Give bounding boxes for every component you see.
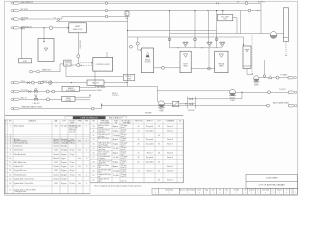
pump P1 feed pump	[159, 101, 165, 107]
svg-text:Sheet 2: Sheet 2	[147, 152, 153, 155]
svg-text:45 gpm: 45 gpm	[61, 154, 67, 156]
svg-text:50: 50	[138, 139, 140, 141]
svg-text:2: 2	[86, 126, 87, 128]
svg-text:15: 15	[138, 153, 140, 155]
svg-text:AND DATA LIST: AND DATA LIST	[109, 117, 124, 120]
svg-text:ACT RO 4 Dia: ACT RO 4 Dia	[98, 137, 109, 140]
svg-text:35: 35	[158, 126, 160, 128]
wire line1 drop	[260, 3, 262, 33]
svg-text:Recycled: Recycled	[146, 157, 153, 159]
svg-text:Chem Feed: Chem Feed	[14, 150, 23, 152]
off-page input connector	[11, 98, 20, 100]
left table row data	[9, 125, 87, 193]
svg-text:Treated Wtr Line: Treated Wtr Line	[14, 169, 27, 172]
svg-text:16: 16	[9, 183, 11, 185]
wire T4 bottom	[246, 69, 248, 75]
off-page input connector	[11, 2, 20, 4]
off-page output connector	[289, 91, 297, 94]
svg-text:145 gpm: 145 gpm	[61, 150, 68, 152]
wire line3	[20, 18, 62, 20]
wire V1 bottom drain	[285, 42, 287, 57]
svg-text:35: 35	[158, 180, 160, 182]
wire drop right end	[240, 11, 242, 34]
svg-text:LGT: LGT	[157, 121, 160, 123]
svg-text:30 gpm: 30 gpm	[61, 170, 67, 172]
wire drop to H2	[208, 11, 210, 42]
svg-text:15: 15	[93, 148, 95, 150]
wire row5 to bus	[104, 82, 128, 84]
svg-text:1: 1	[213, 192, 214, 194]
svg-text:2: 2	[86, 141, 87, 143]
wire funnel drops circles	[168, 38, 171, 41]
svg-text:20 psi: 20 psi	[70, 154, 75, 156]
wire branch at x216.6	[216, 11, 218, 34]
svg-text:BOOST: BOOST	[230, 98, 236, 100]
box X1 interface	[64, 60, 71, 66]
svg-text:18: 18	[93, 161, 95, 163]
svg-text:2 Supply: 2 Supply	[113, 170, 120, 172]
wire riser x157.5	[157, 87, 159, 102]
svg-text:Yes: Yes	[78, 174, 81, 176]
wire T2 to T3	[191, 68, 215, 70]
svg-text:PK FLOW: PK FLOW	[135, 121, 143, 123]
title block customer box	[246, 175, 298, 189]
svg-text:1: 1	[251, 192, 252, 194]
svg-text:Manual: Manual	[53, 158, 59, 160]
wire U2 top stub	[106, 52, 108, 58]
svg-text:GPM: GPM	[70, 123, 74, 125]
svg-text:Sheet 1: Sheet 1	[167, 179, 173, 182]
table title dark band	[65, 116, 127, 119]
svg-text:Filter Backwash: Filter Backwash	[14, 153, 26, 156]
svg-text:Approx: Approx	[113, 165, 119, 168]
svg-text:1: 1	[10, 126, 11, 128]
svg-text:Discarded: Discarded	[146, 129, 154, 132]
wire FL1 feed drop	[137, 37, 139, 50]
svg-text:NOTES: NOTES	[145, 113, 152, 115]
PRV valve row6	[34, 90, 37, 93]
svg-text:11: 11	[9, 162, 11, 164]
svg-text:15: 15	[9, 178, 11, 180]
svg-text:Yes: Yes	[78, 141, 81, 143]
svg-text:Sheet 3: Sheet 3	[167, 169, 173, 172]
svg-text:Line 12: Line 12	[121, 176, 127, 178]
wire line4	[56, 21, 128, 23]
svg-text:50: 50	[138, 126, 140, 128]
svg-text:Approx: Approx	[113, 138, 119, 141]
label box softener	[62, 86, 80, 91]
svg-text:14: 14	[93, 144, 95, 146]
off-page input connector	[11, 27, 20, 29]
warning triangle	[269, 76, 272, 79]
wire into X1	[60, 63, 64, 65]
svg-text:Continued: Continued	[14, 145, 22, 148]
svg-text:TO DIST: TO DIST	[279, 89, 286, 91]
svg-text:Sheet 4: Sheet 4	[167, 138, 173, 141]
svg-text:Sheet 1: Sheet 1	[167, 143, 173, 146]
svg-text:Discarded: Discarded	[146, 160, 154, 163]
svg-text:1: 1	[187, 192, 188, 194]
svg-text:25: 25	[138, 130, 140, 132]
box U1 chemical feed AWB	[69, 23, 87, 33]
svg-text:Line 13: Line 13	[121, 181, 127, 183]
svg-text:22: 22	[93, 180, 95, 182]
svg-text:Sheet 1: Sheet 1	[167, 125, 173, 128]
svg-text:PLC UNIT: PLC UNIT	[221, 16, 229, 18]
svg-text:150: 150	[55, 126, 58, 128]
svg-text:VAL: VAL	[54, 120, 57, 123]
svg-text:7: 7	[10, 146, 11, 148]
svg-text:10 psi: 10 psi	[70, 174, 75, 176]
wire box X1 bottom	[65, 66, 67, 77]
hopper glyph H3	[220, 42, 225, 47]
svg-text:35: 35	[158, 161, 160, 163]
off-page input connector	[11, 18, 20, 20]
svg-text:25: 25	[138, 144, 140, 146]
wire U3 out	[233, 17, 237, 19]
off-page input connector	[11, 9, 20, 11]
svg-text:2: 2	[86, 183, 87, 185]
svg-text:Yes: Yes	[78, 166, 81, 168]
wire J1 to U2 b	[80, 64, 93, 66]
svg-text:25 psi: 25 psi	[70, 162, 75, 164]
svg-text:Supply: Supply	[113, 130, 118, 132]
svg-text:8: 8	[10, 150, 11, 152]
wire funnel link line	[169, 34, 171, 48]
wire J1 to U2 a	[80, 62, 93, 64]
svg-text:ply: ply	[98, 176, 100, 178]
svg-text:TYP OF 2: TYP OF 2	[112, 95, 119, 97]
svg-text:gpm: gpm	[98, 181, 102, 183]
valve on line1	[245, 2, 248, 5]
svg-text:PUMP: PUMP	[159, 110, 164, 112]
svg-text:17: 17	[93, 157, 95, 159]
wire FL1 outlet	[154, 67, 180, 69]
label box LB1	[123, 74, 135, 80]
svg-text:Closed: Closed	[53, 166, 58, 168]
label box carbon filter	[62, 96, 75, 101]
svg-text:SOFTENER: SOFTENER	[66, 90, 76, 92]
svg-text:FILTER: FILTER	[145, 61, 151, 63]
pump motor M2	[270, 32, 277, 39]
wire branch to instrument box	[126, 10, 128, 13]
svg-text:TO TANK: TO TANK	[280, 73, 288, 76]
wire vertical from conn4 down to box M1	[21, 28, 23, 59]
wire row5	[20, 82, 87, 84]
tank T3 media	[215, 51, 228, 72]
valve station manifold	[186, 97, 188, 109]
instrument glyph below	[125, 16, 129, 18]
wire T1 top feed	[43, 28, 45, 41]
box U3 PLC	[217, 14, 232, 20]
svg-text:Fix gpm: Fix gpm	[61, 178, 68, 180]
svg-text:1 Standby: 1 Standby	[61, 142, 69, 145]
svg-text:CUSTOMER: CUSTOMER	[266, 178, 278, 180]
off-page input connector	[11, 81, 20, 83]
wire row7	[20, 98, 62, 100]
svg-text:2: 2	[86, 166, 87, 168]
svg-text:FEED: FEED	[21, 28, 26, 30]
wire P3 discharge	[259, 77, 288, 79]
svg-text:45 gpm: 45 gpm	[61, 183, 67, 185]
svg-text:Supply: Supply	[113, 144, 118, 146]
svg-text:2 gpm: 2 gpm	[61, 158, 66, 160]
svg-text:Recycled: Recycled	[146, 139, 153, 141]
svg-text:2 psi set: 2 psi set	[69, 131, 76, 134]
svg-text:Plant City Wtr Line: Plant City Wtr Line	[14, 142, 28, 145]
wire main bus	[127, 17, 129, 87]
hopper glyph H2	[207, 42, 212, 47]
svg-text:60 psi: 60 psi	[70, 150, 75, 152]
wire drain riser	[101, 103, 103, 108]
svg-text:25: 25	[138, 161, 140, 163]
wire row7 branch a	[75, 96, 90, 98]
junction circle J1	[77, 63, 80, 66]
svg-text:LINE SCHEDULE: LINE SCHEDULE	[81, 118, 99, 120]
svg-text:35: 35	[158, 153, 160, 155]
node water service inlet	[29, 71, 33, 73]
svg-text:IT: IT	[6, 121, 8, 123]
svg-text:40 psi: 40 psi	[70, 170, 75, 172]
wire riser x90	[89, 94, 91, 97]
svg-text:GAC Media Line: GAC Media Line	[14, 161, 26, 164]
wire row6 cont b	[80, 89, 97, 91]
wire between tanks	[208, 48, 210, 69]
svg-text:150T: 150T	[54, 162, 58, 164]
svg-text:14: 14	[9, 174, 11, 176]
svg-text:150T: 150T	[54, 170, 58, 172]
wire funnel header	[128, 30, 217, 32]
svg-text:15: 15	[138, 170, 140, 172]
svg-text:CW psi: CW psi	[69, 143, 75, 145]
wire line1	[20, 2, 261, 4]
wire funnel line	[170, 33, 271, 35]
svg-text:Finished Booster: Finished Booster	[14, 173, 27, 176]
svg-text:6: 6	[10, 143, 11, 145]
svg-text:12: 12	[9, 166, 11, 168]
svg-text:WTR QTY: WTR QTY	[126, 76, 133, 78]
wire service jog up	[59, 64, 61, 72]
wire row6	[20, 91, 62, 93]
hopper glyph H1	[183, 42, 188, 47]
svg-text:Checked by: Checked by	[165, 190, 173, 192]
svg-text:Yes: Yes	[78, 183, 81, 185]
svg-text:Sheet 2: Sheet 2	[147, 169, 153, 172]
svg-text:13: 13	[9, 170, 11, 172]
wire P2 suction header	[158, 90, 233, 92]
dashed signal line	[251, 35, 253, 74]
wire branch at x170	[169, 11, 171, 34]
svg-text:GPM FT: GPM FT	[146, 121, 152, 123]
wire drain row	[20, 108, 102, 110]
svg-text:PUMP: PUMP	[230, 100, 235, 102]
svg-text:11: 11	[93, 130, 95, 132]
svg-text:Approx: Approx	[113, 125, 119, 128]
tank T4 day tank	[243, 46, 251, 69]
svg-text:Standby: Standby	[61, 145, 67, 148]
svg-text:Closed: Closed	[53, 174, 58, 176]
svg-text:Discarded: Discarded	[146, 143, 154, 146]
svg-text:05 Jan: 05 Jan	[69, 183, 74, 185]
wire U3 feed from line2	[222, 11, 224, 15]
wire station out	[195, 98, 242, 100]
wire U1 bottom drop	[77, 33, 79, 64]
instrument box FIT	[125, 11, 129, 15]
svg-text:Closed: Closed	[53, 146, 58, 148]
svg-text:12: 12	[93, 135, 95, 137]
svg-text:Recycled: Recycled	[146, 126, 153, 128]
box M1 meter	[19, 59, 32, 63]
svg-text:Sheet 2: Sheet 2	[167, 129, 173, 132]
svg-text:CTRL VLV: CTRL VLV	[32, 103, 39, 105]
svg-text:3 in pipe: 3 in pipe	[61, 126, 67, 128]
svg-text:13: 13	[93, 139, 95, 141]
wire row7 branch b	[75, 99, 90, 101]
svg-text:10: 10	[93, 126, 95, 128]
svg-text:2 Supply: 2 Supply	[113, 135, 120, 137]
wire P1 discharge	[164, 103, 172, 105]
svg-text:This is a typical set of line: This is a typical set of line data for p…	[94, 185, 141, 188]
svg-text:CITY OF AURORA, KANSAS: CITY OF AURORA, KANSAS	[259, 184, 286, 187]
valve V5 circled plus	[49, 81, 53, 85]
wire U2 to riser	[95, 86, 158, 88]
svg-text:Supply: Supply	[113, 161, 118, 163]
svg-text:DRAIN AND WASTE LINES: DRAIN AND WASTE LINES	[21, 106, 43, 109]
svg-text:35: 35	[158, 135, 160, 137]
svg-text:2: 2	[86, 150, 87, 152]
svg-text:15 gpm: 15 gpm	[61, 166, 67, 168]
control panel box U2	[93, 58, 113, 72]
pump P2 booster	[230, 89, 236, 95]
parts table grid	[5, 115, 183, 194]
wire P2 discharge	[235, 91, 288, 93]
svg-text:Dly gpm: Dly gpm	[61, 174, 68, 176]
svg-text:Sheet 4: Sheet 4	[167, 156, 173, 159]
svg-text:35: 35	[158, 144, 160, 146]
tank T2 softener	[180, 51, 191, 72]
inline symbol line4	[57, 19, 59, 21]
svg-text:35: 35	[158, 170, 160, 172]
right table row data	[93, 124, 173, 183]
svg-text:Approx: Approx	[113, 152, 119, 155]
svg-text:PUMP: PUMP	[254, 84, 259, 86]
svg-text:1: 1	[273, 192, 274, 194]
svg-text:Rev: Rev	[225, 190, 228, 192]
svg-text:1 in Wtr: 1 in Wtr	[113, 174, 119, 177]
check valve CV1	[173, 101, 179, 106]
svg-text:CONTROL UNIT: CONTROL UNIT	[96, 64, 111, 66]
wire CV1 to station	[179, 103, 188, 105]
sheet border frame	[5, 1, 298, 195]
svg-text:AWB: AWB	[75, 25, 80, 28]
svg-text:9: 9	[10, 154, 11, 156]
svg-text:FEED SYS: FEED SYS	[73, 29, 83, 31]
svg-text:150T: 150T	[54, 183, 58, 185]
svg-text:Dwg No: Dwg No	[249, 190, 255, 192]
svg-text:GAC FLT: GAC FLT	[92, 82, 99, 85]
svg-text:45 gpm: 45 gpm	[61, 162, 67, 164]
vessel V1	[283, 8, 288, 42]
svg-text:Sheet 3: Sheet 3	[167, 152, 173, 155]
wire line5	[20, 27, 69, 29]
svg-text:16: 16	[93, 153, 95, 155]
svg-text:BACK WASH DRAIN: BACK WASH DRAIN	[273, 102, 290, 105]
svg-text:Yes: Yes	[78, 150, 81, 152]
valve circle on line5	[49, 26, 52, 29]
svg-text:17: 17	[9, 190, 11, 192]
svg-text:FILTER: FILTER	[65, 100, 71, 102]
svg-text:+ Left gpm Train: + Left gpm Train	[14, 190, 26, 193]
svg-text:Sheet 2: Sheet 2	[167, 165, 173, 168]
off-page output connector	[288, 76, 296, 79]
wire X1 to J1	[71, 64, 77, 66]
label box backwash supply	[87, 80, 104, 85]
svg-text:Water Supply: Water Supply	[14, 125, 24, 128]
svg-text:20: 20	[93, 170, 95, 172]
svg-text:GPM: GPM	[78, 121, 82, 123]
title block bottom strip	[152, 188, 298, 194]
wire line2	[20, 10, 261, 12]
table headers	[6, 120, 183, 125]
svg-text:2 in Wtr: 2 in Wtr	[113, 147, 119, 150]
svg-text:Yes: Yes	[78, 158, 81, 160]
wire backwash drain line	[102, 105, 268, 107]
svg-text:BKFLW: BKFLW	[43, 81, 48, 83]
svg-text:SUBJECT: SUBJECT	[29, 121, 37, 123]
svg-text:CHEM FEED: CHEM FEED	[79, 40, 81, 50]
pump P3 transfer	[254, 76, 259, 81]
svg-text:WELL: WELL	[21, 20, 26, 22]
off-page input connector	[11, 90, 20, 92]
svg-text:21: 21	[93, 175, 95, 177]
tank T1 clearwell	[38, 39, 54, 62]
filter unit FL1	[141, 48, 153, 73]
wire row6 cont a	[80, 87, 97, 89]
instrument circle on bus	[130, 45, 133, 48]
svg-text:50: 50	[138, 157, 140, 159]
wire branch at x195	[194, 11, 196, 34]
valve row7	[35, 98, 38, 101]
svg-text:Softener Wtr: Softener Wtr	[14, 165, 24, 168]
svg-text:2: 2	[86, 158, 87, 160]
svg-text:MON: MON	[127, 78, 131, 80]
svg-text:COMMENT: COMMENT	[166, 121, 175, 123]
svg-text:2: 2	[86, 174, 87, 176]
svg-text:NOTE 3: NOTE 3	[112, 93, 118, 95]
svg-text:NOTES 1: NOTES 1	[258, 2, 265, 4]
svg-text:Update Both 2 Check Wtr: Update Both 2 Check Wtr	[14, 182, 34, 185]
svg-text:5 psi: 5 psi	[70, 166, 74, 168]
svg-text:Closed: Closed	[53, 178, 58, 180]
svg-text:B: B	[257, 190, 258, 192]
wire vertical x264.5	[264, 60, 266, 78]
svg-text:Update Both 2 Check Train: Update Both 2 Check Train	[14, 177, 34, 180]
wire U2 bottom drop	[94, 71, 96, 86]
svg-text:Closed: Closed	[53, 154, 58, 156]
wire service row	[33, 71, 36, 73]
wire pump to vessel	[277, 33, 284, 35]
svg-text:1 in Wtr: 1 in Wtr	[113, 156, 119, 159]
off-page output connector	[289, 104, 297, 107]
svg-text:10: 10	[9, 158, 11, 160]
off-page input connector	[11, 107, 20, 109]
wire lower header	[66, 76, 123, 78]
svg-text:19: 19	[93, 166, 95, 168]
svg-text:Closed: Closed	[53, 143, 58, 145]
svg-text:150T: 150T	[54, 150, 58, 152]
